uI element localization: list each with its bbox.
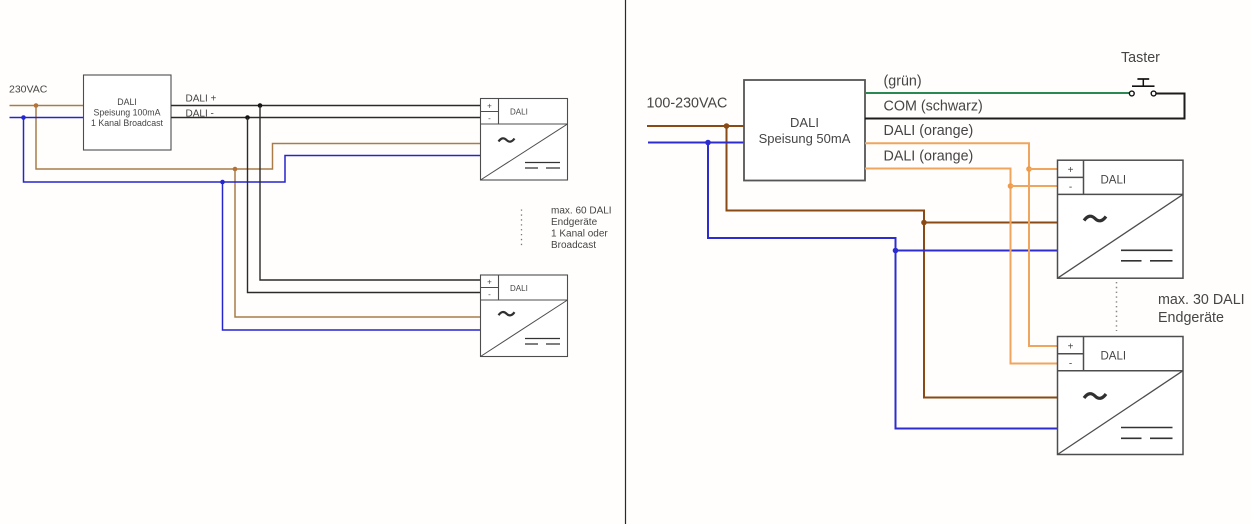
wire DALI A branch to lamp1 + bbox=[1029, 168, 1058, 170]
ballast U5 (lamp driver 1, right) bbox=[1058, 160, 1184, 278]
wire COM (black) bbox=[865, 94, 1185, 119]
wire L phase (brown) from source to PSU bbox=[10, 105, 84, 107]
ballast U2 (lamp driver 1, left) bbox=[481, 99, 568, 181]
node phase junction 2 bbox=[233, 167, 238, 172]
wire DALI+ (black) bbox=[171, 105, 481, 107]
pushbutton S1 (Taster) bbox=[1129, 79, 1156, 96]
svg-text:DALI: DALI bbox=[1101, 351, 1127, 363]
svg-text:DALI: DALI bbox=[510, 284, 528, 293]
svg-text:Taster: Taster bbox=[1121, 50, 1160, 66]
node phase junction bbox=[724, 123, 730, 129]
svg-text:-: - bbox=[488, 114, 491, 123]
svg-text:DALI: DALI bbox=[790, 115, 819, 130]
wire DALI- branch to lamp 2 bbox=[248, 118, 481, 293]
node neutral junction bbox=[705, 140, 711, 146]
svg-text:+: + bbox=[487, 278, 492, 287]
svg-text:1 Kanal oder: 1 Kanal oder bbox=[551, 229, 608, 240]
svg-text:max. 60 DALI: max. 60 DALI bbox=[551, 206, 612, 217]
svg-text:-: - bbox=[488, 290, 491, 299]
wire phase branch down to lamps bbox=[727, 126, 1059, 398]
svg-text:-: - bbox=[1069, 358, 1072, 369]
svg-text:DALI: DALI bbox=[1101, 174, 1127, 186]
node DALI A junction bbox=[1026, 166, 1032, 172]
svg-text:-: - bbox=[1069, 182, 1072, 193]
wire L phase (dark brown) to PSU bbox=[647, 125, 744, 127]
note max. 30 DALI bbox=[1158, 292, 1245, 326]
svg-text:(grün): (grün) bbox=[884, 74, 922, 90]
dotted continuation line (left) bbox=[521, 210, 523, 249]
wire DALI- (black) bbox=[171, 117, 481, 119]
svg-text:230VAC: 230VAC bbox=[9, 84, 48, 96]
node neutral junction 2 bbox=[893, 248, 899, 254]
svg-text:+: + bbox=[487, 102, 492, 111]
wire N neutral (blue) from source to PSU bbox=[10, 117, 84, 119]
wire neutral branch to lamp 1 bbox=[896, 250, 1058, 252]
svg-text:Endgeräte: Endgeräte bbox=[1158, 310, 1224, 326]
node phase junction 2 bbox=[921, 220, 927, 226]
wire neutral branch to lamp 2 bbox=[223, 182, 481, 330]
svg-text:1 Kanal Broadcast: 1 Kanal Broadcast bbox=[91, 118, 163, 128]
node neutral junction 1 bbox=[21, 115, 26, 120]
note max. 60 DALI bbox=[551, 206, 612, 252]
node DALI+ junction bbox=[258, 103, 263, 108]
wire DALI A (orange) bbox=[865, 143, 1058, 346]
wire N neutral (blue) to PSU bbox=[648, 142, 744, 144]
node DALI- junction bbox=[245, 115, 250, 120]
wire neutral branch to lamp 1 bbox=[24, 118, 481, 183]
wire DALI B branch to lamp1 - bbox=[1011, 185, 1058, 187]
svg-text:+: + bbox=[1068, 165, 1074, 176]
svg-text:DALI: DALI bbox=[117, 97, 137, 107]
svg-text:+: + bbox=[1068, 341, 1074, 352]
dotted continuation line (right) bbox=[1116, 282, 1118, 331]
svg-text:Speisung 100mA: Speisung 100mA bbox=[94, 108, 161, 118]
node phase junction 1 bbox=[34, 103, 39, 108]
wire phase branch to lamp 1 bbox=[924, 222, 1058, 224]
PSU U4: DALI Speisung 50mA bbox=[744, 80, 865, 181]
wire phase branch to lamp 2 bbox=[235, 169, 481, 317]
svg-text:Broadcast: Broadcast bbox=[551, 240, 596, 251]
svg-text:DALI -: DALI - bbox=[186, 109, 214, 120]
svg-text:Endgeräte: Endgeräte bbox=[551, 217, 598, 228]
ballast U6 (lamp driver 2, right) bbox=[1058, 337, 1184, 455]
svg-text:DALI: DALI bbox=[510, 108, 528, 117]
node DALI B junction bbox=[1008, 183, 1014, 189]
wire DALI B (orange) bbox=[865, 169, 1058, 364]
panel divider bbox=[625, 0, 627, 524]
ballast U3 (lamp driver 2, left) bbox=[481, 275, 568, 357]
svg-text:COM (schwarz): COM (schwarz) bbox=[884, 98, 983, 114]
svg-text:100-230VAC: 100-230VAC bbox=[647, 96, 728, 112]
node neutral junction 2 bbox=[220, 180, 225, 185]
wire DALI+ branch to lamp 2 bbox=[260, 106, 481, 281]
wire switch (green) bbox=[865, 92, 1129, 94]
PSU U1: DALI Speisung 100mA bbox=[84, 75, 172, 150]
svg-text:max. 30 DALI: max. 30 DALI bbox=[1158, 292, 1245, 308]
svg-text:DALI (orange): DALI (orange) bbox=[884, 123, 974, 139]
wire phase branch to lamp 1 bbox=[36, 106, 481, 170]
wire neutral branch down to lamps bbox=[708, 143, 1058, 429]
svg-text:DALI +: DALI + bbox=[186, 94, 217, 105]
svg-text:Speisung 50mA: Speisung 50mA bbox=[759, 131, 851, 146]
svg-text:DALI (orange): DALI (orange) bbox=[884, 149, 974, 165]
